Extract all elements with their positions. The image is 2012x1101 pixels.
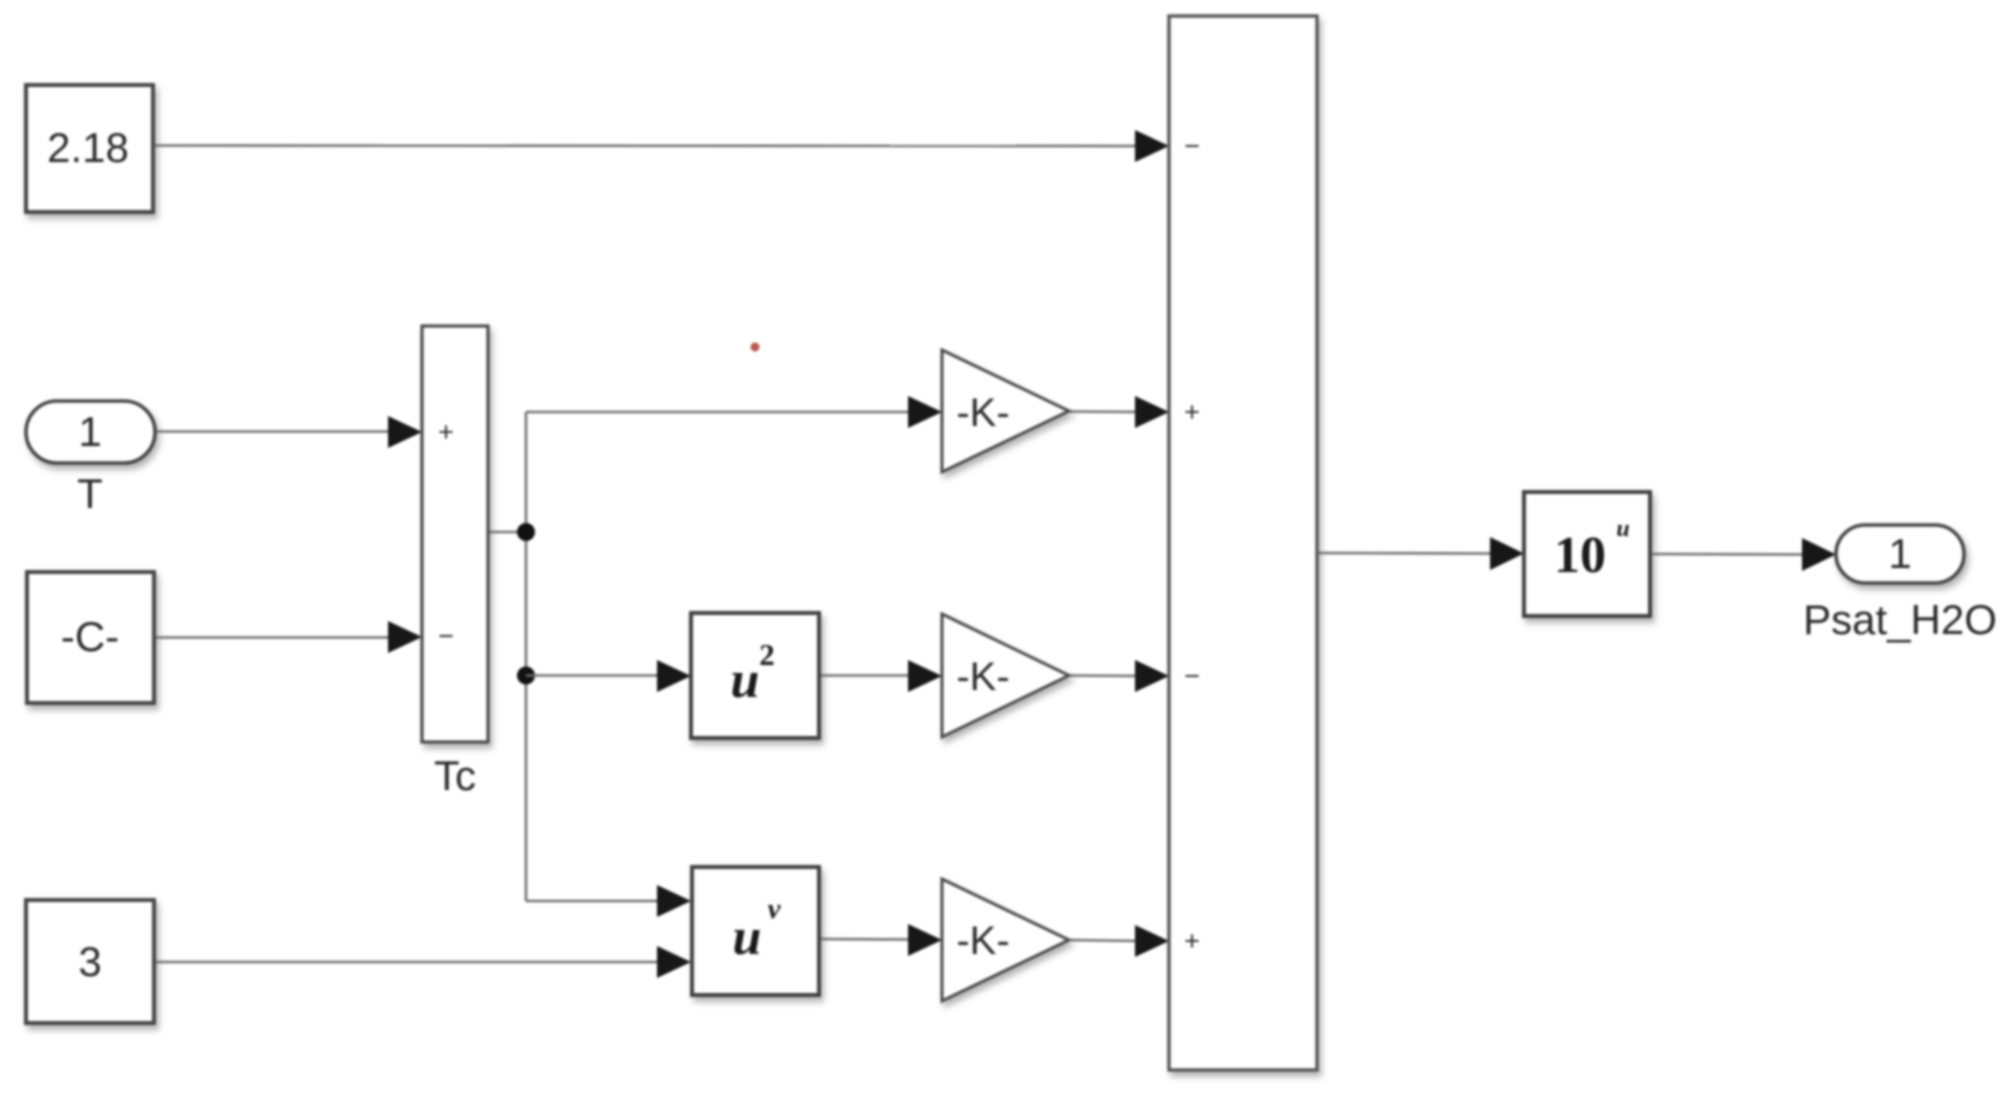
svg-text:+: + [438,417,454,447]
wire 2.18 to sum port1 [153,144,1140,147]
svg-text:Psat_H2O: Psat_H2O [1803,596,1997,643]
math block u^v [692,867,819,995]
wire trunk down to uv top input [526,900,662,903]
svg-text:-K-: -K- [956,391,1009,435]
red annotation dot [751,343,760,352]
wire uv to gain3 [819,938,913,941]
gain block 1 -K- [942,350,1069,472]
arrowhead into sum port1 [1135,130,1169,162]
wire -C- to Tc minus [154,636,393,639]
svg-text:10: 10 [1554,527,1606,584]
wire Tc output to trunk [488,531,526,534]
svg-text:-K-: -K- [956,919,1009,963]
wire trunk to gain1 [526,411,913,414]
outport 1 oval [1836,525,1964,583]
wire u2 to gain2 [819,674,913,677]
arrowhead into gain2 [908,660,942,692]
svg-text:u: u [731,652,760,709]
arrowhead into sum port2 [1135,396,1169,428]
svg-text:2: 2 [759,637,775,672]
arrowhead into uv bottom [657,946,691,978]
constant block -C- [27,572,154,703]
big sum block [1169,16,1317,1070]
svg-text:3: 3 [78,938,101,985]
wire gain1 to sum port2 [1069,410,1140,413]
wire gain3 to sum port4 [1069,940,1140,941]
svg-text:−: − [438,621,454,651]
wire trunk vertical [525,412,528,901]
arrowhead into gain3 [908,924,942,956]
gain block 2 -K- [942,614,1069,737]
sum block Tc [422,326,488,742]
math block u^2 [691,613,819,738]
svg-text:-C-: -C- [61,613,119,660]
arrowhead into u2 [657,660,691,692]
wire gain2 to sum port3 [1069,674,1140,677]
arrowhead into sum port4 [1135,925,1169,957]
node junction dot upper [517,523,535,541]
svg-text:1: 1 [1888,530,1911,577]
wire const 3 to uv bottom input [154,961,662,964]
gain block 3 -K- [942,879,1069,1001]
svg-text:2.18: 2.18 [47,124,129,171]
math block 10^u [1524,492,1650,616]
arrowhead into Tc plus [388,416,422,448]
svg-text:T: T [77,470,103,517]
arrowhead into gain1 [908,396,942,428]
svg-text:−: − [1184,661,1200,691]
svg-text:+: + [1184,397,1200,427]
arrowhead into 10^u [1490,537,1524,570]
arrowhead into sum port3 [1135,660,1169,692]
arrowhead into Tc minus [388,621,422,653]
svg-text:v: v [768,893,782,925]
svg-text:+: + [1184,926,1200,956]
svg-text:u: u [1616,516,1629,542]
svg-text:-K-: -K- [956,655,1009,699]
node junction dot lower [517,667,535,685]
constant block 3 [26,900,154,1023]
svg-text:Tc: Tc [434,752,476,799]
svg-text:1: 1 [78,408,101,455]
arrowhead into uv top [657,885,691,917]
inport 1 oval [26,401,155,463]
wire sum output to 10^u [1317,552,1495,555]
wire trunk to u2 [526,674,662,677]
wire inport T to Tc plus [155,430,393,433]
svg-text:u: u [733,909,762,966]
wire 10^u to outport [1650,553,1807,556]
svg-text:−: − [1184,131,1200,161]
arrowhead into outport [1802,538,1836,571]
constant block 2.18 [26,85,153,212]
